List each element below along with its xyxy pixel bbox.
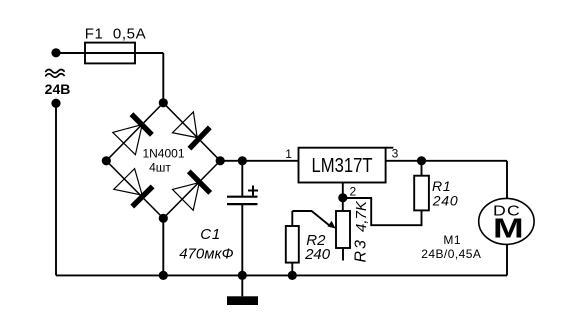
svg-text:M1: M1: [443, 233, 461, 247]
svg-text:F1 0,5A: F1 0,5A: [85, 26, 147, 43]
svg-text:24В/0,45А: 24В/0,45А: [421, 247, 481, 261]
svg-text:240: 240: [432, 193, 459, 209]
svg-text:R3: R3: [353, 238, 370, 262]
svg-text:C1: C1: [200, 226, 221, 243]
svg-text:240: 240: [304, 246, 331, 263]
svg-text:2: 2: [349, 185, 356, 199]
svg-text:4,7K: 4,7K: [353, 200, 370, 232]
svg-text:4шт: 4шт: [149, 160, 171, 174]
svg-text:1: 1: [285, 147, 292, 161]
svg-text:M: M: [493, 213, 524, 243]
svg-text:LM317T: LM317T: [312, 155, 373, 177]
svg-text:470мкФ: 470мкФ: [179, 246, 233, 263]
svg-text:1N4001: 1N4001: [142, 147, 184, 161]
svg-text:3: 3: [392, 147, 399, 161]
svg-text:24В: 24В: [45, 81, 71, 97]
